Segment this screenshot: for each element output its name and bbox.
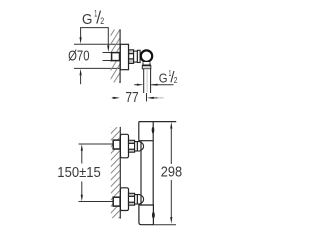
escutcheon rosette (side view) bbox=[120, 44, 128, 69]
svg-text:298: 298 bbox=[161, 164, 182, 180]
bottom box (lower knob) bbox=[139, 205, 154, 225]
upper escutcheon bbox=[120, 134, 128, 158]
upper supply centerline (extension line) bbox=[79, 143, 113, 145]
cylinder between nut and collar bbox=[134, 51, 138, 62]
svg-text:2: 2 bbox=[100, 16, 104, 26]
wall hatching (side view) bbox=[111, 30, 120, 83]
lower supply centerline (extension line) bbox=[79, 201, 113, 203]
supply pipe stub in wall bbox=[103, 52, 112, 54]
svg-text:150±15: 150±15 bbox=[57, 165, 101, 181]
in-wall fitting square (side view) bbox=[112, 53, 120, 61]
dimension 77 (wall to outlet center) bbox=[112, 97, 115, 99]
lower hex nut bbox=[129, 193, 135, 205]
outlet pipe down bbox=[144, 69, 150, 93]
upper hex nut bbox=[129, 140, 135, 152]
lower cylinder bbox=[135, 195, 138, 204]
svg-text:1: 1 bbox=[169, 68, 172, 78]
slash of G1/2 outlet bbox=[171, 71, 174, 82]
upper cylinder bbox=[135, 142, 138, 151]
extension line top of escutcheon bbox=[74, 43, 120, 45]
wall face line (front view) bbox=[119, 127, 121, 219]
wall hatching (front view) bbox=[111, 127, 120, 218]
leader underline with left arrow (outlet) bbox=[151, 84, 173, 86]
extension line bottom of escutcheon bbox=[74, 67, 120, 69]
bar body left edge bbox=[140, 141, 142, 205]
slash of G1/2 top bbox=[97, 11, 101, 24]
faucet bar: top edge + 298 top extension line bbox=[139, 121, 176, 123]
dimension line Ø70 (upper arrow) bbox=[80, 28, 82, 38]
svg-text:G: G bbox=[82, 11, 92, 28]
dimension 298 bbox=[170, 122, 172, 129]
upper union cone (pointed olive) bbox=[137, 142, 143, 151]
leader underline of G1/2 top bbox=[80, 27, 109, 29]
bar knob section left edge bbox=[138, 122, 140, 141]
thermostat knob (circle, side view) bbox=[141, 50, 152, 61]
svg-text:2: 2 bbox=[174, 75, 178, 85]
right-pointing arrow at outlet left side bbox=[134, 84, 138, 86]
label G1/2 (outlet thread) bbox=[159, 68, 178, 86]
collar before knob bbox=[137, 50, 140, 62]
label G1/2 (top supply thread) bbox=[82, 8, 104, 27]
bar right edge bbox=[152, 122, 154, 205]
svg-text:Ø70: Ø70 bbox=[68, 49, 89, 65]
svg-text:1: 1 bbox=[94, 8, 97, 18]
wall face line (side view) bbox=[119, 29, 121, 83]
outlet collar below knob bbox=[143, 62, 150, 65]
dimension 150±15 bbox=[81, 144, 83, 151]
lower union cone (pointed olive) bbox=[137, 195, 143, 204]
upper in-wall square bbox=[113, 140, 120, 149]
leader drop with arrow to supply pipe bbox=[107, 28, 109, 46]
lower in-wall square bbox=[113, 197, 120, 206]
svg-text:G: G bbox=[159, 71, 168, 85]
lower escutcheon bbox=[120, 188, 128, 211]
bar division line under knob bbox=[139, 140, 153, 142]
dimension line Ø70 (lower arrow) bbox=[80, 69, 82, 76]
knob button mark (bottom) bbox=[152, 212, 155, 219]
hex nut (side view) bbox=[129, 50, 134, 64]
outlet centerline bbox=[146, 70, 148, 92]
svg-text:77: 77 bbox=[125, 90, 138, 106]
knob button mark (top) bbox=[152, 127, 155, 134]
298 bottom extension line bbox=[153, 224, 176, 226]
